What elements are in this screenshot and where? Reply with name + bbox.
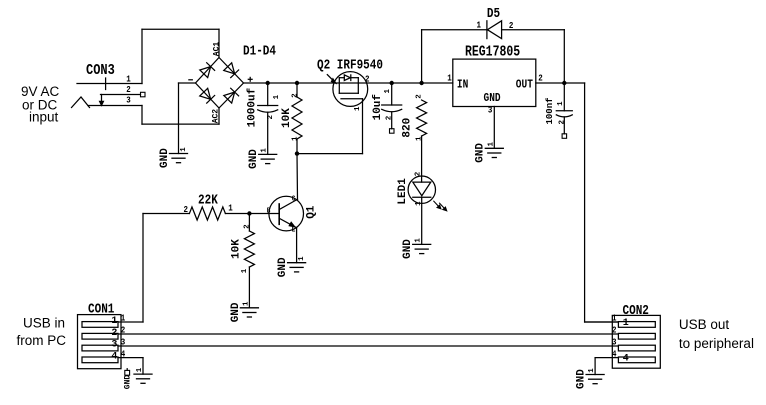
- wire: AC1 drop: [218, 29, 220, 57]
- wire: D5 cathode-side rail: [502, 29, 565, 31]
- CON1 slot 3: [82, 345, 118, 351]
- svg-text:10K: 10K: [231, 239, 243, 259]
- CON2 slot 2: [618, 333, 655, 339]
- svg-text:GND: GND: [475, 143, 487, 163]
- svg-text:1: 1: [136, 367, 144, 372]
- ground at CON2 pin 4: [586, 374, 604, 376]
- svg-text:2: 2: [365, 74, 370, 85]
- svg-text:REG17805: REG17805: [465, 43, 520, 60]
- svg-text:2: 2: [559, 120, 567, 125]
- ground at LED1: [413, 243, 431, 245]
- CON2 pin 1 stub: [585, 321, 619, 323]
- Q1 emitter stroke: [279, 218, 296, 228]
- svg-text:1: 1: [623, 318, 629, 329]
- bridge plus terminal label: [248, 78, 252, 80]
- ground at 1000uf: [259, 153, 277, 155]
- svg-text:1: 1: [354, 106, 362, 111]
- wire: 820 to LED1: [421, 136, 423, 176]
- node: Q2 gate junction: [295, 151, 299, 155]
- wire: D5 anode-side rail: [422, 29, 487, 31]
- svg-text:GND: GND: [277, 257, 289, 277]
- CON1 pin 1 stub: [118, 321, 143, 323]
- node: 1000uf junction: [266, 81, 270, 85]
- svg-text:1: 1: [180, 147, 188, 152]
- svg-text:USB out: USB out: [679, 317, 730, 332]
- capacitor 10uf plates: [382, 104, 402, 106]
- capacitor 10uf open pad: [390, 129, 395, 134]
- CON2 body: [612, 315, 660, 368]
- CON3 pin 2 open pad: [141, 92, 146, 97]
- svg-text:AC1: AC1: [213, 42, 222, 57]
- svg-text:3: 3: [612, 337, 617, 348]
- capacitor 100nf lead 2 to pad: [563, 117, 565, 134]
- bridge minus terminal label: [189, 79, 192, 81]
- wire: 22K to Q1 base: [225, 213, 279, 215]
- wire: LED1 to ground: [421, 197, 423, 244]
- svg-text:D1-D4: D1-D4: [243, 43, 276, 58]
- capacitor 1000uf plates: [258, 105, 278, 107]
- svg-text:1: 1: [477, 20, 482, 31]
- CON3 pin 3 wire: [88, 105, 142, 107]
- svg-text:1: 1: [588, 368, 596, 373]
- Q2 internal right contact: [357, 78, 359, 94]
- wire: pin1 riser to top rail: [141, 29, 143, 83]
- CON1 slot 4: [82, 357, 118, 363]
- CON1 slot 2: [82, 333, 118, 339]
- svg-text:2: 2: [612, 325, 617, 336]
- CON1 shield pad: [126, 369, 128, 371]
- svg-text:CON3: CON3: [86, 63, 115, 80]
- svg-text:2: 2: [416, 94, 424, 99]
- ground at Q1 emitter: [288, 262, 306, 264]
- CON2 slot 3: [618, 345, 655, 351]
- Q1 emitter arrowhead: [289, 222, 294, 226]
- svg-text:2: 2: [243, 224, 251, 229]
- node: base junction: [247, 211, 251, 215]
- wire: AC2 riser: [218, 108, 220, 124]
- svg-text:1: 1: [241, 268, 249, 273]
- svg-text:3: 3: [488, 105, 493, 116]
- CON1 slot 1: [82, 322, 118, 328]
- node: 10K junction: [295, 81, 299, 85]
- svg-text:GND: GND: [124, 375, 133, 390]
- svg-text:1: 1: [261, 148, 269, 153]
- svg-text:1: 1: [415, 238, 423, 243]
- Q2 source arrow: [327, 75, 332, 80]
- svg-text:1: 1: [298, 256, 306, 261]
- svg-text:GND: GND: [230, 302, 242, 322]
- svg-text:C: C: [292, 195, 296, 204]
- svg-text:USB in: USB in: [23, 316, 65, 331]
- wire: USB D- line CON1 to CON2: [118, 333, 618, 335]
- bridge diode D4 (bottom-right): [224, 88, 239, 103]
- Q1 body circle: [269, 196, 304, 231]
- ground at base 10K: [240, 307, 258, 309]
- svg-text:4: 4: [111, 352, 117, 363]
- capacitor 1000uf lead 2 to ground: [267, 112, 269, 154]
- svg-text:1: 1: [228, 203, 233, 214]
- bridge diode D1 (top-left): [200, 63, 215, 78]
- capacitor 1000uf lead 1: [267, 83, 269, 106]
- Q2 internal channel bar: [339, 92, 358, 94]
- CON3 jack tip caret: [72, 97, 90, 108]
- svg-text:D5: D5: [487, 6, 500, 21]
- svg-text:100nf: 100nf: [545, 97, 555, 124]
- CON1 pin 4 stub: [118, 357, 143, 359]
- svg-text:GND: GND: [248, 149, 260, 169]
- svg-text:OUT: OUT: [516, 79, 534, 92]
- resistor 820 body: [417, 100, 427, 136]
- svg-text:input: input: [29, 110, 59, 125]
- svg-text:2: 2: [111, 328, 117, 339]
- wire: bottom run to AC2: [142, 123, 219, 125]
- resistor 10K (base) body: [248, 214, 250, 232]
- wire: minus terminal stub: [179, 82, 196, 84]
- LED1 triangle: [413, 182, 431, 196]
- svg-text:4: 4: [623, 354, 629, 365]
- Q2 internal left contact: [338, 78, 340, 94]
- ground at bridge minus: [170, 153, 188, 155]
- svg-text:Q1: Q1: [306, 205, 318, 219]
- wire: main rail bridge+ to regulator IN: [244, 82, 453, 84]
- wire: output drop to CON2: [584, 83, 586, 322]
- svg-text:B: B: [267, 207, 271, 216]
- svg-text:E: E: [292, 226, 296, 235]
- wire: CON1 pin1 riser: [142, 214, 144, 323]
- svg-text:1000uf: 1000uf: [247, 87, 259, 127]
- wire: junction down to Q1 collector: [296, 154, 299, 200]
- svg-text:2: 2: [538, 73, 543, 84]
- svg-text:GND: GND: [576, 369, 588, 389]
- ground at CON1 pin 4: [134, 373, 152, 375]
- Q1 collector stroke: [279, 199, 297, 209]
- capacitor 100nf open pad: [562, 134, 567, 139]
- svg-text:Q2 IRF9540: Q2 IRF9540: [317, 57, 383, 72]
- svg-text:2: 2: [184, 204, 189, 215]
- svg-text:from PC: from PC: [17, 333, 67, 348]
- bridge diode D3 (bottom-left): [200, 88, 215, 103]
- svg-text:2: 2: [292, 93, 300, 98]
- CON2 slot 4: [618, 357, 655, 363]
- node: 820/D5 junction: [419, 81, 423, 85]
- svg-text:3: 3: [126, 95, 131, 106]
- svg-text:1: 1: [292, 136, 300, 141]
- LED1 cathode bar: [413, 196, 431, 198]
- LED1 body circle: [408, 176, 435, 203]
- CON3 label tick: [105, 78, 107, 90]
- svg-text:22K: 22K: [198, 193, 218, 208]
- LED1 top lead inside: [421, 176, 423, 182]
- wire: top rail to AC1: [142, 28, 219, 30]
- wire: D5 left riser: [421, 30, 423, 83]
- svg-text:1: 1: [111, 316, 117, 327]
- wire: regulator OUT to output node: [536, 82, 585, 84]
- wire: minus terminal to ground: [178, 83, 180, 154]
- svg-text:1: 1: [273, 94, 281, 99]
- svg-text:10uf: 10uf: [372, 94, 384, 121]
- ground at regulator: [485, 147, 503, 149]
- svg-text:LED1: LED1: [397, 178, 409, 205]
- wire: D5 right riser: [563, 30, 565, 83]
- node: output junction: [562, 81, 566, 85]
- svg-text:1: 1: [126, 74, 131, 85]
- wire: CON1 pin 4 to ground: [142, 358, 144, 375]
- Q1 base bar: [278, 204, 280, 224]
- bridge diode D2 (top-right): [224, 63, 239, 78]
- CON3 pin 2 wire: [101, 94, 141, 96]
- svg-text:AC2: AC2: [211, 109, 220, 124]
- svg-text:GND: GND: [484, 92, 502, 105]
- svg-text:1: 1: [447, 73, 452, 84]
- diode D5 symbol: [486, 21, 488, 39]
- wire: gate to junction: [297, 153, 363, 155]
- capacitor 100nf lead 1: [563, 83, 565, 111]
- svg-text:1: 1: [242, 301, 250, 306]
- svg-text:820: 820: [401, 118, 413, 138]
- wire: Q1 emitter to ground: [296, 228, 298, 263]
- svg-text:GND: GND: [159, 148, 171, 168]
- resistor 22K body: [189, 207, 225, 220]
- CON2 slot 1: [618, 322, 655, 328]
- Q2 body circle: [333, 72, 368, 107]
- resistor 10K body: [296, 83, 298, 97]
- CON2 pin 4 stub: [595, 357, 618, 359]
- svg-text:1: 1: [557, 101, 565, 106]
- svg-text:to peripheral: to peripheral: [679, 336, 754, 351]
- Q2 internal top bar with body diode: [339, 77, 344, 79]
- node: 10uf junction: [390, 81, 394, 85]
- regulator box: [453, 59, 536, 106]
- CON1 body: [78, 315, 122, 369]
- bridge diamond outline: [196, 58, 244, 109]
- svg-text:1: 1: [384, 89, 392, 94]
- Q2 gate bar: [341, 98, 363, 100]
- svg-text:2: 2: [386, 115, 394, 120]
- CON3 switch arrow: [101, 95, 103, 102]
- wire: CON2 pin 4 to ground: [594, 358, 596, 375]
- wire: pin3 drop: [141, 106, 143, 125]
- svg-text:1: 1: [487, 142, 495, 147]
- svg-text:GND: GND: [402, 239, 414, 259]
- wire: regulator GND pin down: [493, 107, 495, 149]
- capacitor 10uf lead 2 to pad: [391, 112, 393, 129]
- CON3 pin 1 wire: [77, 83, 142, 85]
- svg-text:IN: IN: [457, 79, 468, 92]
- LED1 light arrows: [434, 201, 439, 207]
- wire: USB D+ line CON1 to CON2: [118, 345, 618, 347]
- wire: Q2 gate down: [362, 99, 364, 154]
- wire: base rail left segment: [143, 213, 189, 215]
- capacitor 100nf plates: [556, 110, 572, 112]
- capacitor 10uf lead 1: [391, 83, 393, 105]
- svg-text:3: 3: [111, 340, 117, 351]
